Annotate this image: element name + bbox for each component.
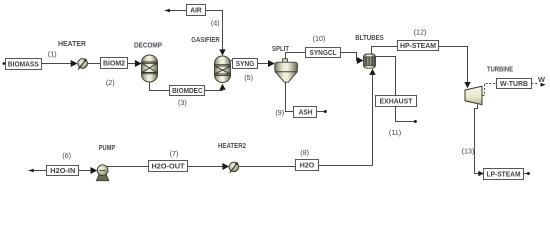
svg-text:W-TURB: W-TURB <box>500 79 528 88</box>
svg-text:SYNGCL: SYNGCL <box>310 48 338 57</box>
svg-text:HEATER: HEATER <box>58 39 87 48</box>
svg-text:SPLIT: SPLIT <box>272 44 290 53</box>
svg-text:BIOMASS: BIOMASS <box>8 59 39 68</box>
svg-text:PUMP: PUMP <box>99 143 116 152</box>
svg-text:DECOMP: DECOMP <box>134 41 162 50</box>
svg-text:BLTUBES: BLTUBES <box>355 33 384 42</box>
svg-text:(2): (2) <box>106 78 115 87</box>
svg-text:ASH: ASH <box>299 107 313 116</box>
svg-text:H2O-IN: H2O-IN <box>50 166 75 175</box>
svg-text:(6): (6) <box>62 151 71 160</box>
svg-text:(8): (8) <box>300 148 309 157</box>
svg-text:H2O: H2O <box>300 160 315 169</box>
svg-text:GASIFIER: GASIFIER <box>191 35 220 44</box>
svg-text:(10): (10) <box>313 34 326 43</box>
svg-text:H2O-OUT: H2O-OUT <box>152 161 186 170</box>
svg-text:W: W <box>538 75 545 84</box>
svg-text:TURBINE: TURBINE <box>487 64 513 73</box>
svg-text:(1): (1) <box>48 50 57 59</box>
svg-text:HP-STEAM: HP-STEAM <box>400 41 436 50</box>
svg-text:(4): (4) <box>211 18 220 27</box>
svg-text:SYNG: SYNG <box>236 59 255 68</box>
svg-text:(9): (9) <box>275 108 284 117</box>
svg-text:(5): (5) <box>244 73 253 82</box>
svg-text:HEATER2: HEATER2 <box>218 141 246 150</box>
svg-text:(7): (7) <box>170 149 179 158</box>
svg-text:(3): (3) <box>178 98 187 107</box>
svg-text:(13): (13) <box>462 146 475 155</box>
svg-text:(12): (12) <box>414 28 427 37</box>
svg-text:BIOM2: BIOM2 <box>103 59 125 68</box>
svg-text:EXHAUST: EXHAUST <box>380 97 414 106</box>
svg-text:AIR: AIR <box>190 6 202 15</box>
svg-text:BIOMDEC: BIOMDEC <box>172 86 203 95</box>
svg-text:(11): (11) <box>389 128 401 137</box>
svg-text:LP-STEAM: LP-STEAM <box>487 169 521 178</box>
